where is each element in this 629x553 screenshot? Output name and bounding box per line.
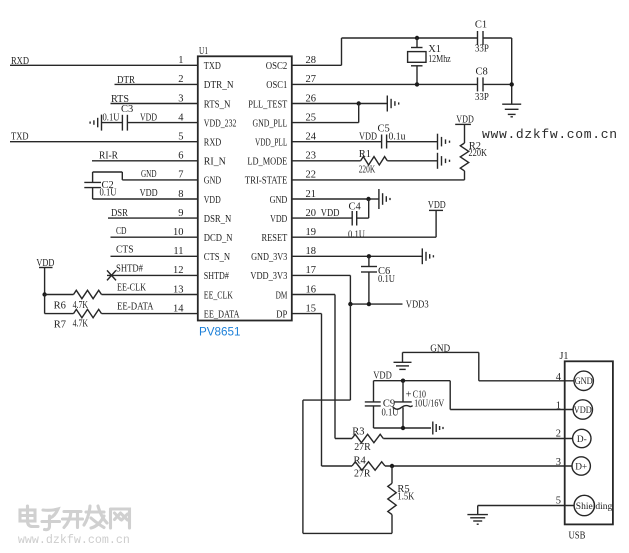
ground VDD_PLL (rotated right): [438, 134, 450, 150]
node VDD label pin4: [140, 113, 157, 124]
wire pin20 VDD: [292, 199, 369, 218]
svg-text:DSR: DSR: [111, 208, 128, 219]
USB label: [569, 530, 586, 541]
capacitor C2: [84, 182, 101, 187]
wire pin17 VDD_3V3 to VDD3: [292, 275, 403, 304]
wire pin15 DP down: [292, 314, 322, 466]
junction D+ / R5: [390, 464, 394, 468]
pin numbers 28-15: [306, 55, 317, 314]
svg-text:24: 24: [306, 132, 317, 143]
wire DM to USB D-: [335, 438, 573, 440]
svg-text:J1: J1: [560, 351, 569, 362]
svg-text:CTS: CTS: [116, 245, 134, 256]
node GND label USB: [430, 344, 450, 355]
svg-text:VDD: VDD: [270, 214, 288, 225]
C9 value 0.1U: [382, 407, 399, 418]
svg-text:0.1u: 0.1u: [389, 131, 407, 142]
watermark dianzi kaifa wang calligraphy (bottom left, drawn strokes): [20, 506, 130, 530]
svg-text:www.dzkfw.com.cn: www.dzkfw.com.cn: [482, 127, 617, 142]
svg-text:RXD: RXD: [204, 138, 222, 149]
svg-text:4: 4: [178, 112, 184, 123]
svg-text:33P: 33P: [475, 44, 489, 55]
resistor R1: [361, 157, 388, 165]
svg-text:6: 6: [178, 151, 183, 162]
svg-text:4: 4: [556, 372, 562, 383]
svg-text:GND_PLL: GND_PLL: [253, 118, 288, 129]
node GND label pin7: [141, 169, 157, 180]
capacitor C10 electrolytic: [393, 381, 413, 428]
svg-text:CTS_N: CTS_N: [204, 252, 231, 263]
wire pin25 GND_PLL: [292, 104, 359, 123]
svg-text:GND: GND: [141, 169, 157, 180]
J1 pin 3 label: [575, 462, 587, 472]
svg-text:RI_N: RI_N: [204, 157, 226, 168]
C9 label: [383, 399, 395, 410]
VDD label R2: [456, 114, 474, 125]
VDD label left: [36, 258, 54, 269]
svg-text:C3: C3: [121, 104, 133, 115]
svg-text:13: 13: [173, 284, 184, 295]
C5 label: [378, 123, 390, 134]
C2 label: [102, 180, 114, 191]
svg-text:12: 12: [173, 265, 184, 276]
svg-text:OSC1: OSC1: [266, 80, 287, 91]
C10 value 10U/16V: [414, 399, 445, 410]
svg-text:25: 25: [306, 112, 317, 123]
wire pin21 GND: [292, 198, 379, 200]
ground PLL_TEST (rotated right): [387, 96, 398, 112]
J1 pin number 4: [556, 372, 562, 383]
svg-text:VDD: VDD: [359, 131, 377, 142]
R5 label: [397, 484, 409, 495]
wire pin2 DTR: [115, 83, 198, 85]
svg-text:27R: 27R: [354, 442, 371, 453]
svg-text:PLL_TEST: PLL_TEST: [248, 99, 288, 110]
svg-text:9: 9: [178, 208, 183, 219]
J1 pin 2 label: [577, 435, 587, 445]
R3 label: [352, 427, 364, 438]
resistor R4: [352, 462, 385, 470]
junction VDD3 at C6: [367, 302, 371, 306]
node VDD label pin8: [140, 188, 158, 199]
svg-text:D-: D-: [577, 435, 587, 445]
capacitor C5: [382, 135, 387, 149]
resistor R5: [388, 466, 396, 515]
svg-text:15: 15: [306, 303, 317, 314]
svg-text:VDD: VDD: [36, 258, 54, 269]
wire pin28 OSC2 to top rail: [292, 38, 478, 65]
junction C10 bottom: [401, 426, 405, 430]
svg-text:DP: DP: [276, 309, 287, 320]
op-amp U1 chip body PV8651: [198, 56, 292, 320]
C8 label: [476, 67, 488, 78]
svg-text:EE_CLK: EE_CLK: [204, 290, 233, 301]
svg-text:4.7K: 4.7K: [73, 300, 89, 311]
junction crystal bottom: [415, 82, 419, 86]
wire pin24 VDD_PLL: [292, 141, 438, 143]
node EE-DATA label: [117, 302, 154, 313]
svg-text:OSC2: OSC2: [266, 61, 288, 72]
junction right rail OSC1: [510, 82, 514, 86]
wire pin12 SHTD# with no-connect X: [107, 270, 198, 280]
crystal X1: [408, 38, 426, 84]
svg-text:5: 5: [556, 496, 561, 507]
svg-text:22: 22: [306, 170, 317, 181]
svg-text:27R: 27R: [354, 469, 371, 480]
node VDD3 label: [406, 300, 429, 311]
svg-text:CD: CD: [116, 226, 127, 237]
svg-text:10: 10: [173, 227, 184, 238]
ground LD_MODE (rotated right): [438, 153, 450, 169]
wire pin14 EE_DATA: [45, 295, 198, 314]
svg-text:C4: C4: [349, 202, 362, 213]
svg-text:VDD3: VDD3: [406, 300, 429, 311]
node TXD label: [11, 132, 29, 143]
wire pin1 RXD: [10, 64, 198, 66]
resistor R3: [352, 434, 383, 442]
R1 value 220K: [359, 164, 376, 175]
wire pin5 TXD: [10, 141, 198, 143]
R2 label: [469, 141, 481, 152]
svg-text:2: 2: [178, 74, 183, 85]
power VDD symbol for R6/R7 pullups: [39, 268, 53, 295]
resistor R6: [74, 290, 102, 298]
node VDD label USB: [373, 370, 392, 381]
svg-text:D+: D+: [575, 462, 587, 472]
svg-text:VDD_232: VDD_232: [204, 118, 237, 129]
svg-text:Shielding: Shielding: [576, 502, 613, 512]
PV8651 part number label: [199, 327, 241, 339]
wire DP to USB D+: [322, 465, 573, 467]
R5 value 1.5K: [397, 492, 414, 503]
svg-text:0.1U: 0.1U: [378, 274, 395, 285]
wire VDD net to USB pin1: [374, 381, 574, 410]
junction VDD3 at pin17 drop: [348, 302, 352, 306]
svg-text:20: 20: [306, 208, 317, 219]
watermark www.dzkfw.com.cn (top right): [482, 127, 617, 142]
node EE-CLK label: [117, 283, 146, 294]
svg-text:www.dzkfw.com.cn: www.dzkfw.com.cn: [18, 533, 130, 547]
node CTS label: [116, 245, 134, 256]
svg-text:1: 1: [556, 400, 561, 411]
junction crystal top: [415, 36, 419, 40]
wire pin18 GND_3V3: [292, 255, 423, 257]
R2 value 220K: [469, 148, 488, 159]
svg-text:GND: GND: [204, 176, 222, 187]
R4 value 27R: [354, 469, 371, 480]
power VDD symbol for R2: [455, 124, 471, 143]
svg-text:+: +: [406, 390, 412, 401]
R4 label: [354, 456, 367, 467]
capacitor C9: [365, 381, 381, 428]
wire pin16 DM down: [292, 295, 335, 439]
svg-text:VDD_3V3: VDD_3V3: [250, 271, 287, 282]
C3 value 0.1U: [103, 113, 120, 124]
J1 pin 4 label: [575, 377, 593, 387]
svg-text:RI-R: RI-R: [99, 150, 118, 161]
svg-text:10U/16V: 10U/16V: [414, 399, 445, 410]
svg-text:220K: 220K: [469, 148, 488, 159]
junction C10 top: [401, 379, 405, 383]
C3 label: [121, 104, 133, 115]
node RTS label: [111, 94, 129, 105]
VDD label RESET: [428, 200, 446, 211]
node RXD label: [11, 56, 29, 67]
capacitor C3: [122, 115, 127, 131]
junction pin18 C6: [367, 254, 371, 258]
R7 label: [54, 320, 66, 331]
svg-text:11: 11: [173, 246, 183, 257]
capacitor C4: [352, 211, 357, 226]
svg-text:1.5K: 1.5K: [397, 492, 414, 503]
wire C9/C10 bottom to ground: [374, 427, 432, 429]
svg-text:R6: R6: [54, 301, 66, 312]
svg-text:8: 8: [178, 189, 183, 200]
C8 value 33P: [475, 92, 489, 103]
wire pin26 PLL_TEST: [292, 103, 388, 105]
ground VDD filter (rotated right): [433, 422, 443, 435]
svg-text:TXD: TXD: [204, 61, 221, 72]
junction pin25/26: [357, 101, 361, 105]
svg-text:5: 5: [178, 132, 183, 143]
svg-text:LD_MODE: LD_MODE: [247, 157, 287, 168]
R6 value 4.7K: [73, 300, 89, 311]
C6 value 0.1U: [378, 274, 395, 285]
R1 label: [359, 149, 371, 160]
wire C1 to right rail: [483, 38, 512, 84]
svg-text:EE-DATA: EE-DATA: [117, 302, 154, 313]
svg-text:17: 17: [306, 265, 317, 276]
J1 reference designator: [560, 351, 569, 362]
wire pin22 TRI-STATE: [292, 171, 465, 180]
J1 pin 1 VDD: [573, 400, 592, 419]
svg-text:VDD: VDD: [456, 114, 474, 125]
J1 pin number 1: [556, 400, 561, 411]
junction pin21: [366, 197, 370, 201]
C10 plus sign: [406, 390, 412, 401]
X1 value 12Mhz: [428, 54, 451, 65]
svg-text:VDD: VDD: [140, 188, 158, 199]
svg-text:0.1U: 0.1U: [100, 188, 117, 199]
svg-text:DTR_N: DTR_N: [204, 80, 234, 91]
wire shielding to ground: [478, 506, 575, 515]
svg-text:GND: GND: [575, 377, 593, 387]
C5 value 0.1u: [389, 131, 407, 142]
svg-text:0.1U: 0.1U: [103, 113, 120, 124]
C10 label: [413, 389, 426, 400]
node SHTD# label: [116, 264, 144, 275]
node VDD label pin24: [359, 131, 377, 142]
svg-text:27: 27: [306, 74, 317, 85]
C4 value 0.1U: [348, 230, 365, 241]
svg-text:VDD_PLL: VDD_PLL: [255, 138, 287, 149]
J1 pin 3 D+: [572, 457, 590, 475]
svg-text:VDD: VDD: [428, 200, 446, 211]
resistor R2: [460, 143, 468, 171]
C1 label: [475, 20, 487, 31]
svg-text:VDD: VDD: [321, 208, 340, 219]
svg-text:EE_DATA: EE_DATA: [204, 309, 240, 320]
svg-text:PV8651: PV8651: [199, 327, 241, 339]
J1 pin 5 label: [576, 502, 613, 512]
C6 label: [378, 266, 390, 277]
svg-text:C8: C8: [476, 67, 488, 78]
wire pin13 EE_CLK: [45, 294, 198, 296]
J1 pin 4 GND: [574, 371, 593, 390]
node DSR label: [111, 208, 128, 219]
svg-text:EE-CLK: EE-CLK: [117, 283, 146, 294]
svg-text:12Mhz: 12Mhz: [428, 54, 451, 65]
wire pin19 RESET: [292, 236, 436, 238]
resistor R7: [74, 309, 102, 317]
svg-text:DCD_N: DCD_N: [204, 233, 233, 244]
svg-text:21: 21: [306, 189, 317, 200]
svg-text:26: 26: [306, 93, 317, 104]
wire pin4 VDD_232: [127, 122, 197, 124]
chip pin names right column: [245, 61, 288, 320]
ground for C3 (rotated left): [90, 115, 122, 131]
wire pin27 OSC1: [292, 83, 478, 85]
svg-text:GND: GND: [270, 195, 288, 206]
wire C8 to right rail: [483, 84, 512, 104]
svg-text:RTS_N: RTS_N: [204, 99, 231, 110]
U1 reference designator: [199, 46, 208, 57]
chip pin names left column: [204, 61, 240, 320]
node VDD label pin20: [321, 208, 340, 219]
connector J1 body: [565, 361, 613, 524]
watermark www.dzkfw.com.cn (bottom left): [18, 533, 130, 547]
svg-text:USB: USB: [569, 530, 586, 541]
wire pin3 RTS: [111, 103, 198, 105]
J1 pin 1 label: [574, 406, 592, 416]
capacitor C8: [478, 77, 484, 91]
ground pin21 (rotated right): [379, 189, 390, 209]
ground oscillator: [502, 104, 521, 117]
wire pin23 LD_MODE: [292, 160, 438, 162]
capacitor C6: [361, 256, 377, 304]
svg-text:DM: DM: [276, 290, 288, 301]
wire pin9 DSR_N: [108, 217, 198, 219]
svg-text:VDD: VDD: [574, 406, 592, 416]
node DTR label: [117, 75, 135, 86]
J1 pin number 2: [556, 429, 561, 440]
svg-text:VDD: VDD: [204, 195, 221, 206]
svg-text:U1: U1: [199, 46, 208, 57]
C1 value 33P: [475, 44, 489, 55]
pin numbers 1-14: [173, 55, 184, 314]
J1 pin 5 Shielding: [574, 495, 594, 515]
svg-text:19: 19: [306, 227, 317, 238]
ground GND_3V3 (rotated right): [422, 248, 433, 264]
R6 label: [54, 301, 66, 312]
svg-text:33P: 33P: [475, 92, 489, 103]
junction on VDD rail at pin13: [42, 292, 46, 296]
node RI-R label: [99, 150, 118, 161]
ground shielding: [467, 515, 488, 525]
J1 pin number 5: [556, 496, 561, 507]
svg-text:GND_3V3: GND_3V3: [251, 252, 287, 263]
svg-text:14: 14: [173, 303, 184, 314]
svg-text:1: 1: [178, 55, 183, 66]
svg-text:4.7K: 4.7K: [73, 318, 89, 329]
svg-text:TRI-STATE: TRI-STATE: [245, 176, 288, 187]
R3 value 27R: [354, 442, 371, 453]
wire pin8 VDD: [93, 188, 198, 199]
wire VDD3 rail down to R5 return: [303, 304, 392, 533]
J1 pin 2 D-: [573, 429, 591, 447]
ground GND net: [394, 362, 412, 369]
wire pin7 GND jog to C2: [93, 172, 198, 182]
svg-text:DSR_N: DSR_N: [204, 214, 232, 225]
svg-text:3: 3: [178, 93, 183, 104]
node CD label: [116, 226, 127, 237]
svg-text:SHTD#: SHTD#: [204, 271, 230, 282]
wire GND net to USB pin4: [403, 352, 575, 380]
capacitor C1: [478, 31, 484, 45]
R7 value 4.7K: [73, 318, 89, 329]
svg-text:220K: 220K: [359, 164, 376, 175]
svg-text:28: 28: [306, 55, 317, 66]
svg-text:VDD: VDD: [373, 370, 392, 381]
power VDD symbol for RESET: [429, 210, 443, 237]
svg-text:23: 23: [306, 151, 317, 162]
svg-text:3: 3: [556, 457, 561, 468]
svg-text:C1: C1: [475, 20, 487, 31]
svg-text:RESET: RESET: [262, 233, 288, 244]
svg-text:18: 18: [306, 246, 317, 257]
svg-text:7: 7: [178, 170, 183, 181]
C4 label: [349, 202, 362, 213]
wire pin6 RI_N: [92, 160, 198, 162]
J1 pin number 3: [556, 457, 561, 468]
X1 label: [428, 44, 441, 55]
svg-text:16: 16: [306, 284, 317, 295]
C2 value 0.1U: [100, 188, 117, 199]
svg-text:0.1U: 0.1U: [348, 230, 365, 241]
wire pin10 DCD_N: [111, 236, 198, 238]
svg-text:R7: R7: [54, 320, 66, 331]
svg-text:SHTD#: SHTD#: [116, 264, 144, 275]
svg-text:2: 2: [556, 429, 561, 440]
wire pin11 CTS_N: [111, 255, 198, 257]
